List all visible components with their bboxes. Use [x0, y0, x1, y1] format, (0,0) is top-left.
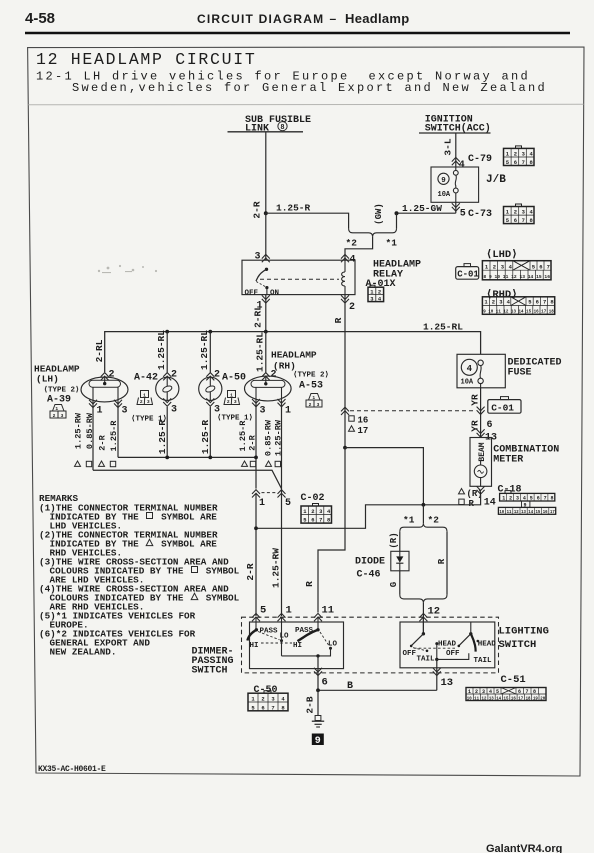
svg-text:BEAM: BEAM	[478, 442, 487, 461]
svg-text:3: 3	[317, 402, 320, 408]
svg-text:R: R	[437, 558, 447, 564]
wire A-39 pin3 to hi bus	[117, 402, 119, 458]
wire A-42 pin3 to hi bus	[166, 407, 168, 458]
svg-text:5678: 5678	[251, 704, 291, 711]
dimmer sw2 wiper (thick, on HI)	[298, 630, 319, 641]
svg-text:5: 5	[460, 209, 466, 220]
top split bracket	[400, 523, 447, 531]
svg-text:R: R	[333, 317, 344, 323]
headlamp A-53 filaments	[255, 387, 257, 400]
svg-text:C-51: C-51	[501, 674, 526, 686]
svg-text:1.25-R: 1.25-R	[200, 420, 211, 455]
fuse element in J/B	[453, 167, 458, 202]
C-01 in-line connector dashed link	[350, 410, 476, 412]
node diode top	[422, 503, 426, 507]
relay box	[242, 260, 355, 294]
relay internal dashed link	[260, 278, 339, 280]
wire C-02 pin1 to dimmer pin5	[255, 494, 257, 616]
remark symbol triangle (2)	[146, 539, 153, 545]
svg-text:5678: 5678	[506, 217, 538, 224]
svg-text:*2: *2	[428, 515, 440, 526]
meter pin 13 mark	[477, 429, 485, 437]
svg-text:C-01: C-01	[457, 270, 479, 280]
svg-text:(LH): (LH)	[36, 374, 59, 385]
connector grid C-73	[504, 204, 535, 224]
alternative bracket *2/*1 above relay	[349, 229, 397, 237]
svg-text:0.85-RW: 0.85-RW	[264, 419, 274, 456]
svg-text:PASS: PASS	[260, 628, 279, 636]
svg-text:5678: 5678	[528, 299, 558, 306]
headlamp A-53 body	[244, 376, 291, 401]
svg-text:4-58: 4-58	[25, 10, 55, 27]
svg-text:9 10 11 12 13 14 15 16 17 18: 9 10 11 12 13 14 15 16 17 18	[483, 308, 554, 314]
node junction 2-R / 1.25-R	[264, 211, 268, 215]
hi beam bus	[118, 456, 256, 458]
lamp A-50 pin 2 mark	[206, 373, 214, 381]
svg-text:10 11 12 13 14 15 16 17: 10 11 12 13 14 15 16 17	[499, 510, 555, 515]
svg-text:2-R: 2-R	[98, 434, 108, 450]
lamp A-42 pin 3 mark	[163, 398, 171, 406]
svg-text:1234: 1234	[506, 151, 538, 158]
svg-text:1: 1	[143, 392, 146, 398]
svg-text:1.25-RL: 1.25-RL	[199, 330, 210, 370]
svg-text:C-01: C-01	[491, 402, 514, 413]
svg-text:1.25-GW: 1.25-GW	[402, 203, 442, 214]
wire to diode	[399, 531, 401, 551]
fuse box	[457, 354, 505, 388]
svg-text:1.25-RL: 1.25-RL	[423, 322, 463, 333]
lighting sw2 wiper thick on TAIL	[470, 622, 472, 634]
svg-text:C-79: C-79	[468, 154, 492, 165]
svg-text:14: 14	[484, 498, 496, 509]
wire sub fusible link down to node	[265, 132, 267, 213]
wire A-50 pin3 to hi bus	[209, 407, 211, 458]
svg-text:1234: 1234	[303, 508, 335, 515]
remark symbol triangle (4)	[191, 593, 198, 599]
A-39 pin 3 mark	[114, 400, 122, 408]
dimmer sw2 common	[317, 617, 319, 630]
lighting gang dashed link	[414, 647, 456, 649]
svg-text:C-73: C-73	[468, 209, 492, 220]
svg-text:DIODE: DIODE	[355, 557, 385, 568]
ground	[317, 690, 319, 715]
dimmer pin 5 mark	[252, 613, 260, 621]
svg-text:1.25-RL: 1.25-RL	[156, 330, 167, 370]
svg-text:11: 11	[322, 605, 335, 617]
svg-text:10A: 10A	[438, 191, 451, 199]
svg-text:OFF: OFF	[403, 650, 417, 658]
svg-text:G: G	[389, 582, 399, 587]
C-01 pin mark on R wire	[341, 407, 349, 415]
svg-text:*1: *1	[386, 238, 398, 249]
wire R branch right and down	[345, 448, 423, 505]
connector grid C-18	[498, 491, 555, 515]
dimmer output rail	[282, 648, 331, 656]
svg-text:HI: HI	[293, 642, 302, 650]
wire A-53 pin3 down through hi bus to C-02	[255, 401, 257, 489]
svg-text:TAIL: TAIL	[474, 657, 493, 665]
svg-text:1: 1	[285, 406, 291, 417]
fuse element	[478, 360, 483, 388]
wire A-53 pin1 down to C-02	[281, 400, 283, 616]
C-01 pin mark on YR wire	[477, 407, 485, 415]
C-01 tag on line	[488, 397, 521, 414]
C-01 tag box	[456, 264, 479, 280]
svg-text:⟨LHD⟩: ⟨LHD⟩	[486, 249, 518, 261]
wire *2 plain branch, label R	[446, 531, 448, 595]
svg-text:Headlamp: Headlamp	[345, 11, 410, 26]
svg-text:FUSE: FUSE	[508, 368, 532, 379]
dimmer pin1 wire through box	[281, 617, 283, 656]
node A-50 feed	[208, 330, 212, 334]
svg-text:1: 1	[230, 392, 233, 398]
svg-text:2-RL: 2-RL	[94, 339, 105, 362]
meter pin 14 mark	[477, 486, 485, 494]
faint pencil smudge	[98, 265, 157, 273]
wire node to relay pin3	[265, 213, 267, 260]
wire bracket to relay pin 4	[345, 237, 373, 261]
connector icon A-42	[137, 391, 153, 405]
wire label 1.25-RL (A-50 feed)	[209, 332, 211, 373]
svg-text:12 HEADLAMP CIRCUIT: 12 HEADLAMP CIRCUIT	[36, 50, 256, 69]
svg-text:3: 3	[171, 405, 177, 416]
svg-text:3: 3	[147, 399, 150, 405]
svg-text:1: 1	[55, 406, 58, 412]
svg-text:16: 16	[358, 416, 369, 426]
title block divider	[28, 103, 583, 106]
svg-text:3: 3	[61, 413, 64, 419]
lighting sw1 common	[422, 617, 424, 634]
wire fuse down to meter	[480, 388, 482, 438]
lighting sw1 dashed to TAIL	[413, 648, 426, 651]
svg-text:1.25-RW: 1.25-RW	[274, 419, 284, 456]
svg-text:YR: YR	[470, 420, 481, 432]
svg-text:2-R: 2-R	[252, 201, 263, 218]
svg-text:4: 4	[459, 160, 465, 171]
svg-text:567: 567	[532, 263, 554, 270]
svg-text:R: R	[304, 581, 315, 587]
svg-text:PASS: PASS	[295, 627, 314, 635]
svg-text:2-RL: 2-RL	[253, 305, 264, 328]
svg-text:*1: *1	[403, 515, 415, 526]
remark symbol square (1)	[147, 513, 153, 519]
header rule	[25, 32, 570, 34]
wire RL bus	[105, 332, 481, 372]
svg-text:1: 1	[286, 605, 292, 617]
svg-text:⟨TYPE 2⟩: ⟨TYPE 2⟩	[44, 386, 80, 395]
svg-text:1.25-R: 1.25-R	[157, 420, 168, 455]
svg-text:2: 2	[227, 399, 230, 405]
svg-text:KX35-AC-H0601-E: KX35-AC-H0601-E	[38, 765, 106, 774]
dimmer sw1 common	[255, 617, 257, 630]
svg-text:1.25-RW: 1.25-RW	[74, 412, 84, 449]
dimmer sw2 dashed to LO	[320, 632, 330, 647]
lighting output rail	[437, 653, 469, 659]
connector grid A-01X	[368, 285, 384, 301]
wire A-39 pin1 to low bus	[92, 401, 94, 470]
svg-text:9: 9	[441, 177, 446, 185]
svg-text:A-50: A-50	[222, 373, 246, 384]
svg-text:2: 2	[271, 370, 277, 381]
relay pin 2 mark	[341, 295, 349, 303]
lighting pin 12 mark	[419, 613, 427, 621]
wire down to bracket	[422, 505, 424, 523]
svg-text:TAIL: TAIL	[417, 656, 436, 664]
node A-53 feed	[264, 330, 268, 334]
svg-text:3: 3	[122, 406, 128, 417]
svg-text:3: 3	[260, 406, 266, 417]
relay pin 1 mark	[262, 295, 270, 303]
svg-text:1.25-R: 1.25-R	[109, 420, 119, 452]
svg-text:10 11 12 13 14 15 16 17 18 19: 10 11 12 13 14 15 16 17 18 19 20	[467, 697, 546, 701]
svg-text:8: 8	[280, 124, 284, 132]
wire bracket to lighting switch pin 12	[422, 603, 424, 634]
svg-text:2-B: 2-B	[305, 696, 316, 713]
connector icon A-39	[50, 405, 66, 419]
svg-text:METER: METER	[493, 455, 523, 466]
lighting switch box	[400, 622, 495, 668]
A-39 pin 1 mark	[89, 400, 97, 408]
svg-text:5678: 5678	[506, 159, 538, 166]
svg-text:HEAD: HEAD	[478, 641, 497, 649]
node R branch	[343, 446, 347, 450]
svg-text:OFF: OFF	[245, 290, 259, 298]
fuse number circle 9	[438, 173, 449, 184]
svg-text:12345678: 12345678	[502, 496, 557, 502]
relay pin 4 mark	[341, 254, 349, 262]
remark symbol square (3)	[192, 567, 198, 573]
combination meter box	[470, 438, 492, 487]
svg-text:1234: 1234	[485, 263, 517, 270]
svg-text:2: 2	[140, 399, 143, 405]
wire 1.25-R right and down to bracket	[266, 213, 349, 228]
svg-text:1: 1	[312, 395, 315, 401]
C-02 pin 5 mark	[278, 490, 286, 498]
dimmer pin 1 mark	[278, 613, 286, 621]
lamp A-42 pin 2 mark	[163, 373, 171, 381]
dimmer pin 6	[317, 656, 319, 690]
svg-text:(R): (R)	[389, 532, 399, 548]
svg-text:C-46: C-46	[357, 570, 381, 581]
wire 1.25-GW from J/B to GW node	[397, 212, 456, 214]
svg-text:4: 4	[350, 255, 356, 266]
svg-text:0.85-RW: 0.85-RW	[85, 412, 95, 449]
dimmer-passing switch box	[250, 622, 344, 669]
svg-text:2: 2	[309, 402, 312, 408]
dimmer pin 11 mark	[314, 613, 322, 621]
lighting pin 13 mark	[433, 668, 441, 676]
svg-text:12345: 12345	[468, 689, 503, 695]
svg-text:HEAD: HEAD	[438, 641, 457, 649]
svg-text:9: 9	[315, 736, 321, 747]
svg-text:(GW): (GW)	[374, 203, 384, 225]
svg-text:1: 1	[97, 406, 103, 417]
svg-text:2: 2	[349, 302, 355, 313]
wire spec labels at meter	[459, 489, 465, 494]
svg-text:3-L: 3-L	[443, 138, 454, 155]
svg-text:SWITCH: SWITCH	[499, 639, 537, 651]
svg-text:*2: *2	[346, 238, 358, 249]
svg-text:C-02: C-02	[301, 493, 325, 504]
dimmer sw1 dashed to LO	[258, 632, 280, 640]
pin 17 RHD	[349, 426, 355, 431]
svg-text:ON: ON	[270, 290, 279, 298]
connector grid C-51	[466, 688, 546, 701]
svg-text:LIGHTING: LIGHTING	[499, 626, 549, 638]
connector icon A-53	[306, 394, 322, 408]
svg-text:2: 2	[378, 289, 381, 296]
svg-text:J/B: J/B	[486, 174, 506, 186]
bottom merge bracket	[400, 595, 447, 603]
earth point 9	[312, 734, 324, 746]
connector grid C-01 LHD	[482, 261, 551, 280]
headlamp A-39 body	[81, 377, 128, 402]
svg-text:5: 5	[285, 498, 291, 509]
svg-text:–: –	[330, 12, 337, 26]
svg-text:9: 9	[524, 502, 527, 508]
headlamp A-53 pin 2 mark	[262, 373, 270, 381]
low beam bus	[93, 470, 282, 488]
dashed switch outline	[242, 617, 499, 673]
svg-text:A-53: A-53	[299, 381, 323, 392]
wire diode to bottom bracket, label G	[399, 571, 401, 595]
svg-text:678: 678	[518, 689, 541, 695]
svg-text:NEW ZEALAND.: NEW ZEALAND.	[50, 647, 117, 658]
relay switch contact	[265, 268, 268, 271]
B wire	[318, 689, 437, 691]
svg-text:5: 5	[260, 605, 266, 617]
svg-text:CIRCUIT DIAGRAM: CIRCUIT DIAGRAM	[197, 12, 324, 26]
lighting sw1 HEAD contact	[435, 642, 438, 645]
svg-text:GalantVR4.org: GalantVR4.org	[486, 843, 562, 853]
svg-text:1: 1	[259, 498, 265, 509]
svg-text:3: 3	[255, 252, 261, 263]
svg-text:2: 2	[109, 370, 115, 381]
A-53 pin 1 mark	[278, 399, 286, 407]
node GW junction	[395, 211, 399, 215]
fuse number circle 4	[461, 359, 477, 375]
lamp A-42 body	[156, 377, 179, 400]
svg-text:R: R	[469, 499, 475, 509]
wire ignition down to J/B	[455, 133, 457, 167]
headlamp A-39 filaments	[92, 387, 94, 401]
connector C-73 pin 5	[455, 202, 457, 213]
svg-text:1.25-RW: 1.25-RW	[271, 548, 282, 588]
svg-text:1234: 1234	[506, 209, 538, 216]
svg-text:17: 17	[358, 426, 369, 436]
sub fusible link 8	[228, 115, 312, 135]
beam indicator bulb	[474, 465, 487, 478]
wire relay pin2 down R	[344, 295, 346, 448]
svg-text:4: 4	[467, 364, 473, 374]
svg-text:12: 12	[428, 606, 441, 618]
wire meter pin14 down-left to hi bus	[256, 495, 481, 528]
svg-text:13: 13	[441, 677, 454, 689]
svg-text:5678: 5678	[303, 517, 335, 524]
connector C-73 pin mark	[452, 203, 460, 211]
relay coil	[342, 260, 345, 294]
dimmer pin 6 mark	[314, 668, 322, 676]
lighting sw2 common	[469, 632, 472, 635]
svg-text:YR: YR	[470, 394, 481, 406]
wire label 1.25-RL (A-53 feed)	[265, 332, 267, 373]
headlamp A-39 pin 2 mark	[101, 373, 109, 381]
dimmer gang dashed link	[261, 642, 292, 644]
svg-text:1.25-R: 1.25-R	[238, 420, 248, 452]
node hi-bus link	[254, 526, 258, 530]
remarks text block	[39, 493, 240, 658]
svg-text:2: 2	[53, 413, 56, 419]
wire relay pin1 down 2-RL	[265, 295, 267, 332]
C-02 pin 1 mark	[252, 490, 260, 498]
lighting pin 13	[436, 659, 438, 690]
svg-text:1.25-RL: 1.25-RL	[254, 332, 265, 372]
svg-text:OFF: OFF	[446, 650, 460, 658]
svg-text:SWITCH: SWITCH	[192, 666, 228, 677]
svg-text:2-R: 2-R	[245, 563, 256, 580]
lamp A-50 body	[199, 377, 222, 400]
node A-42 feed	[165, 330, 169, 334]
svg-text:6: 6	[322, 677, 328, 689]
svg-text:A-42: A-42	[134, 373, 158, 384]
connector icon A-50	[224, 391, 240, 405]
pin 16 LHD	[349, 416, 354, 421]
svg-text:1234: 1234	[484, 299, 514, 306]
connector grid C-01 RHD	[482, 297, 554, 315]
svg-text:A-39: A-39	[47, 395, 71, 406]
svg-text:Sweden,vehicles for General Ex: Sweden,vehicles for General Export and N…	[72, 81, 547, 95]
svg-text:1.25-R: 1.25-R	[276, 203, 311, 214]
svg-text:3: 3	[234, 399, 237, 405]
ignition switch (ACC)	[419, 115, 491, 135]
svg-text:HEADLAMP: HEADLAMP	[271, 350, 317, 361]
relay pin 3 mark	[262, 254, 270, 262]
svg-text:1234: 1234	[251, 696, 291, 703]
svg-text:2-R: 2-R	[248, 434, 258, 450]
svg-text:⟨TYPE 2⟩: ⟨TYPE 2⟩	[293, 371, 329, 380]
A-53 pin 3 mark	[252, 399, 260, 407]
wire GW node down to bracket	[396, 213, 398, 228]
lighting sw1 wiper on OFF	[412, 634, 424, 646]
wire R down from relay branch to pin 11	[318, 448, 345, 613]
connector grid C-02	[301, 504, 332, 524]
lamp A-50 pin 3 mark	[206, 398, 214, 406]
svg-text:8 9 10 11 12 13 14 15 16: 8 9 10 11 12 13 14 15 16	[483, 274, 550, 280]
svg-text:10A: 10A	[461, 379, 474, 387]
svg-text:6: 6	[487, 420, 493, 431]
J/B junction block	[431, 167, 479, 202]
svg-text:HI: HI	[250, 642, 259, 650]
connector grid C-50	[248, 691, 288, 711]
wire label 1.25-RL (A-42 feed)	[166, 332, 168, 373]
svg-text:B: B	[347, 681, 353, 692]
connector C-79 pin mark	[452, 157, 460, 165]
dimmer sw1 wiper (thick, on HI)	[247, 630, 256, 641]
connector grid C-79	[504, 146, 535, 166]
